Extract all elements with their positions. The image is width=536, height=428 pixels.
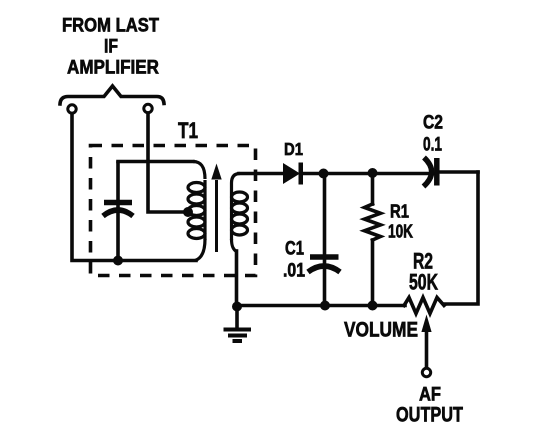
svg-text:VOLUME: VOLUME [344,319,418,342]
inductor secondary of T1 [232,174,248,252]
resistor R2 potentiometer [404,298,444,314]
svg-text:50K: 50K [409,270,438,295]
wire top internal [118,160,193,164]
wire secondary top to diode [239,172,283,176]
svg-text:AMPLIFIER: AMPLIFIER [67,58,159,79]
label R1 value [388,202,413,242]
resistor R1 [365,175,381,304]
node R1 top junction [368,168,378,178]
wiper arm of R2 [421,315,431,368]
svg-text:0.1: 0.1 [423,135,442,156]
svg-text:R1: R1 [390,202,409,222]
capacitor tuning (inside T1) [103,163,133,258]
node ground junction [232,302,242,312]
core arrow [211,164,221,253]
node tap junction [183,207,193,217]
svg-text:D1: D1 [284,139,303,159]
terminal left [68,105,76,113]
wire bottom [237,304,405,308]
svg-text:10K: 10K [388,222,413,242]
node junction cap-bottom [113,256,123,266]
label C1 value [283,239,305,282]
svg-text:C2: C2 [423,113,443,134]
label T1 [178,118,198,143]
ground [224,307,252,341]
node D1/C1 junction [319,169,329,179]
label AF OUTPUT [396,384,463,427]
transformer T1 dashed box [91,146,256,276]
wire right side [444,172,478,304]
wire right input to tap [148,113,186,212]
svg-text:.01: .01 [283,261,305,282]
brace [60,86,164,104]
node C1 bottom junction [320,301,330,311]
capacitor C2 [424,158,479,187]
wire diode to C2 [302,172,434,176]
label VOLUME [344,319,418,342]
svg-text:OUTPUT: OUTPUT [396,403,463,427]
svg-text:IF: IF [104,37,118,58]
inductor primary of T1 [188,162,205,261]
label C2 value [423,113,443,156]
wire left input [72,114,196,261]
terminal right [144,104,152,112]
capacitor C1 [308,175,340,304]
wire secondary bottom [235,251,239,305]
diode D1 [283,163,303,185]
terminal AF output [422,368,430,376]
label R2 value [409,249,438,295]
svg-text:C1: C1 [285,239,304,260]
svg-text:FROM LAST: FROM LAST [62,16,159,37]
node R1 bottom junction [368,301,378,311]
label FROM LAST IF AMPLIFIER [62,16,159,79]
label D1 [284,139,303,159]
svg-text:T1: T1 [178,118,198,143]
